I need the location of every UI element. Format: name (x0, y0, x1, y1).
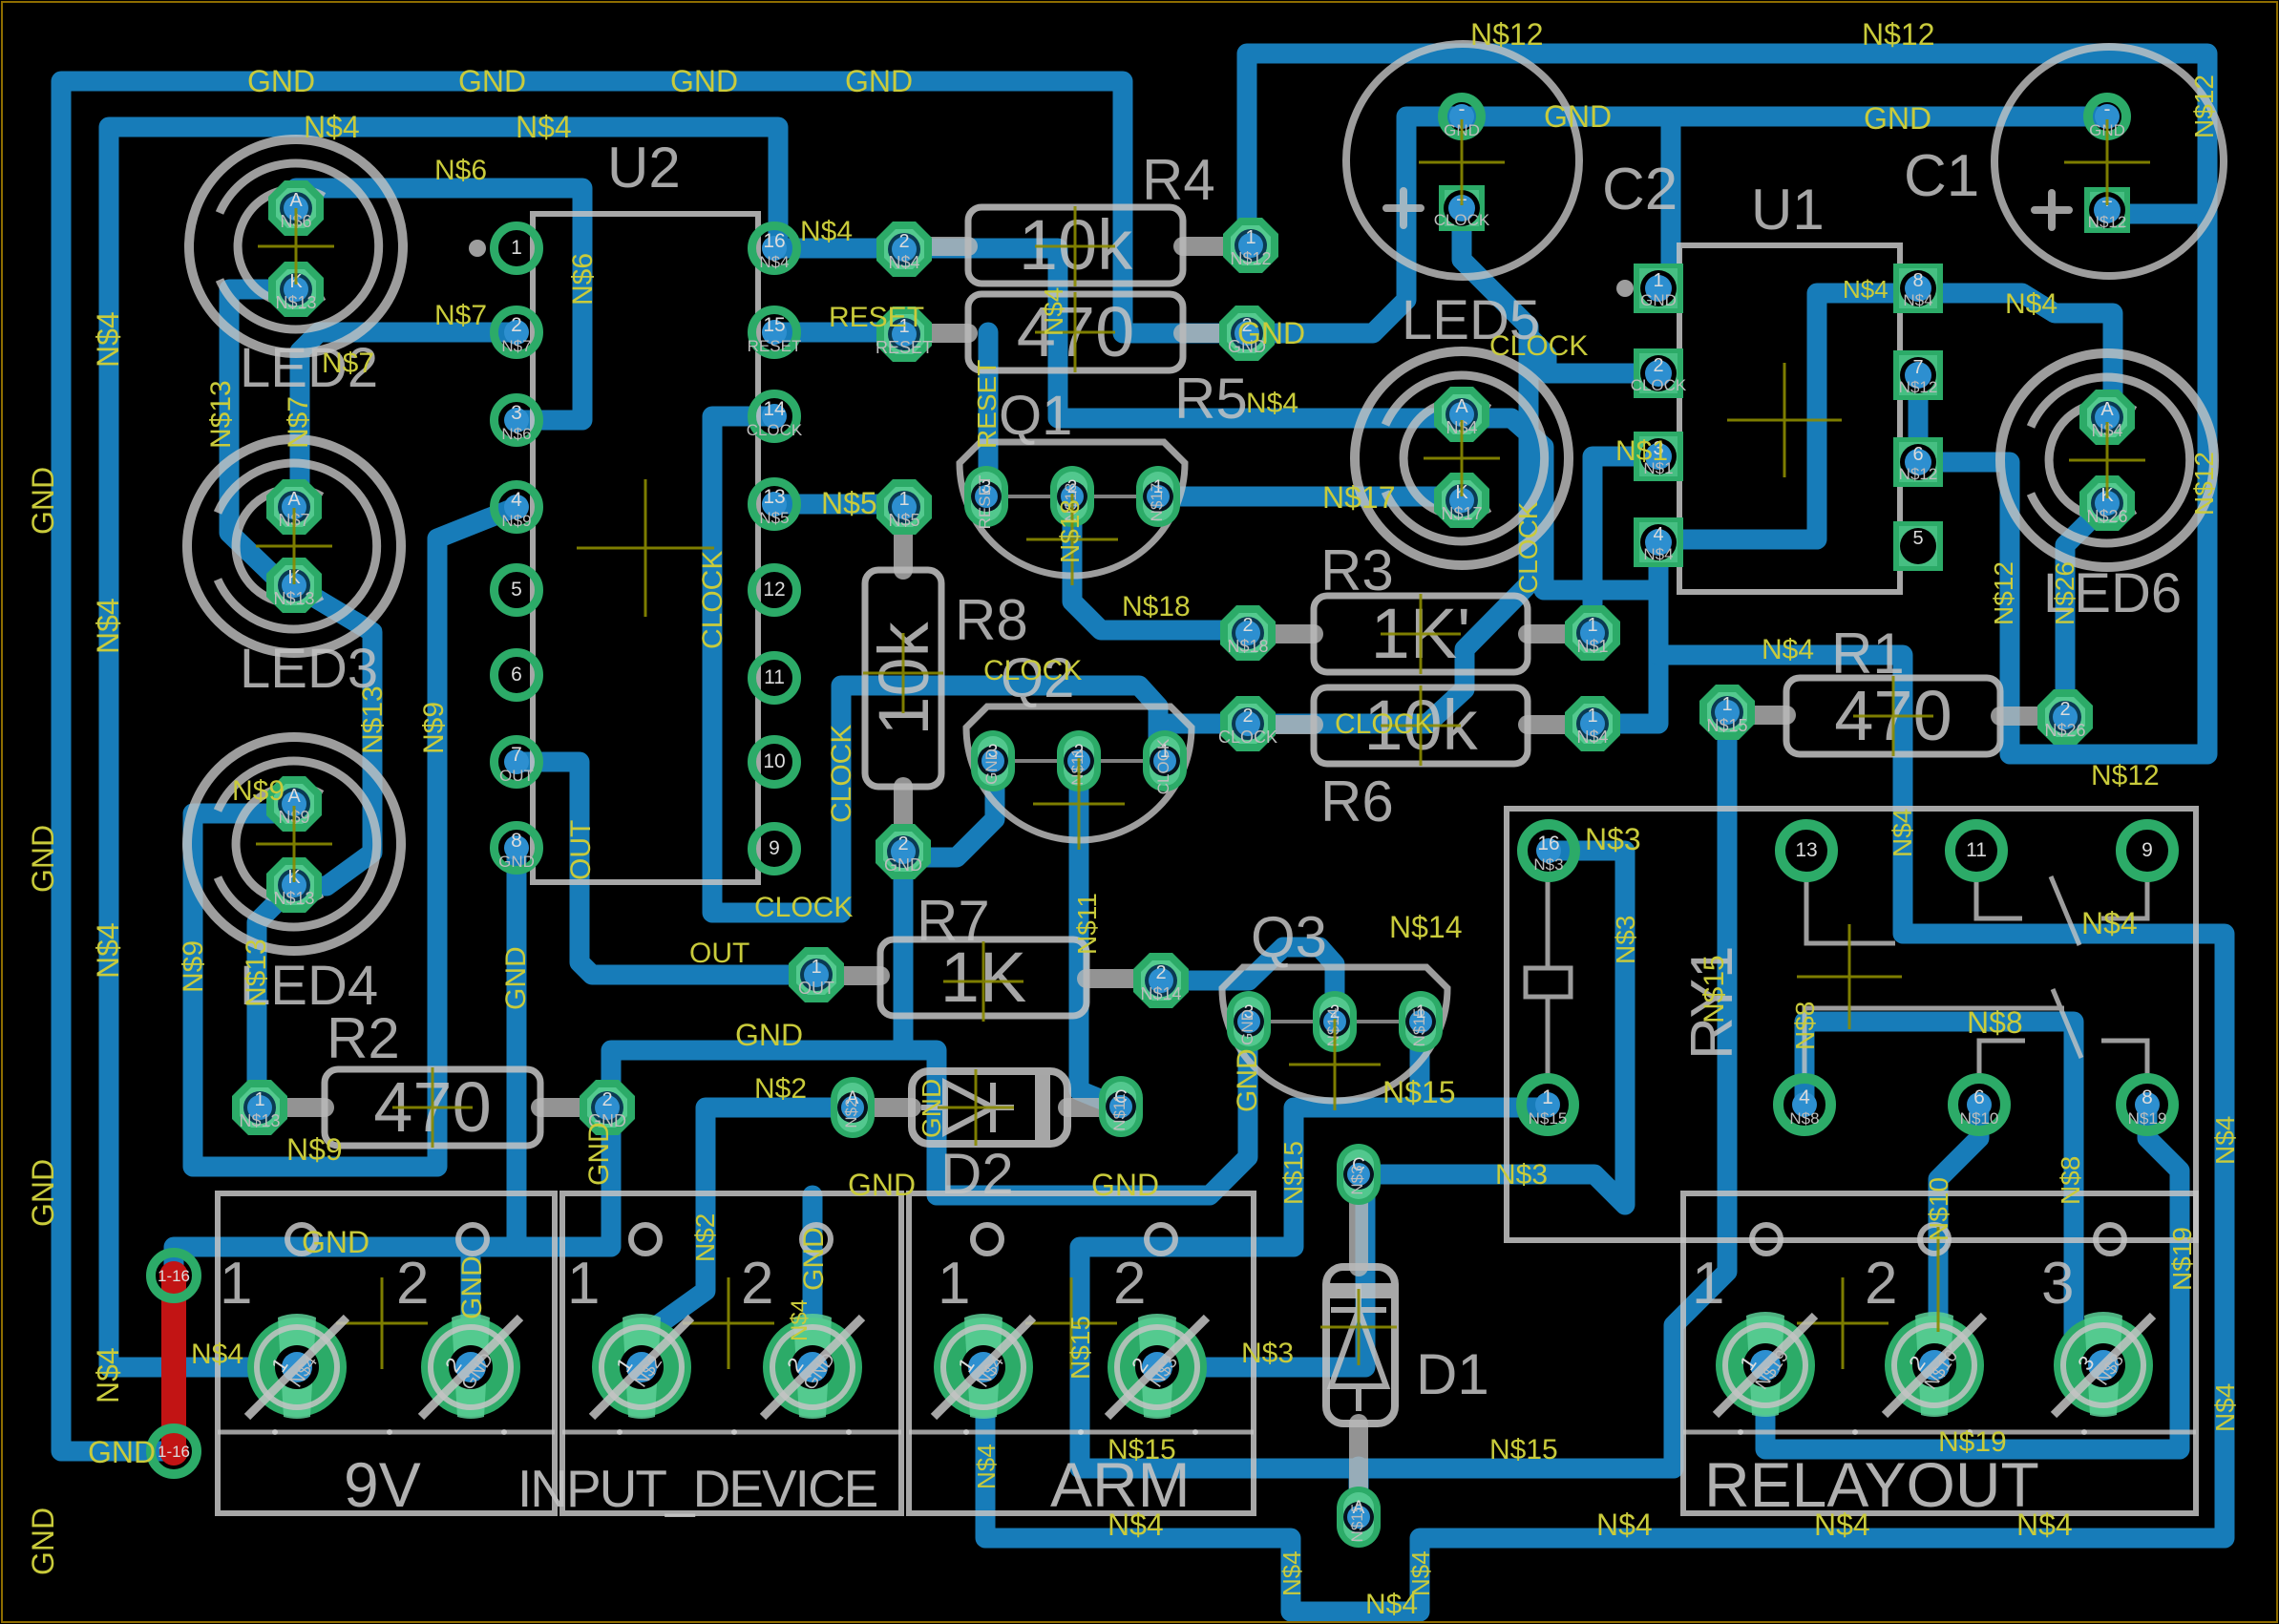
svg-text:N$4: N$4 (516, 110, 572, 144)
svg-text:N$26: N$26 (2044, 721, 2085, 740)
svg-text:RESET: RESET (748, 337, 802, 355)
U2 pin 12 (752, 568, 797, 613)
wire CLOCK C2+ to R6.2 and U1.2 (1248, 208, 1660, 724)
RELAYOUT pad 1 (1716, 1316, 1815, 1415)
R7 pad 1 (789, 947, 844, 1002)
svg-text:3: 3 (511, 402, 522, 424)
svg-text:N$12: N$12 (2088, 213, 2127, 231)
R2 leads (260, 1098, 325, 1117)
U2 pin 2 (495, 310, 539, 355)
svg-text:N$6: N$6 (434, 155, 487, 186)
INPUT_DEVICE pad 1 (592, 1318, 691, 1417)
U1 pin 6 (1893, 437, 1943, 487)
connector INPUT_DEVICE outline (562, 1193, 901, 1513)
svg-text:4: 4 (1799, 1086, 1810, 1108)
svg-text:RESET: RESET (976, 475, 994, 530)
svg-text:2: 2 (1242, 615, 1253, 636)
svg-text:CLOCK: CLOCK (983, 655, 1082, 686)
svg-text:N$4: N$4 (1596, 1508, 1653, 1542)
svg-text:N$4: N$4 (1843, 275, 1889, 304)
R5 pad 2 (1219, 306, 1275, 361)
svg-text:GND: GND (302, 1225, 369, 1259)
svg-text:13: 13 (1795, 839, 1817, 861)
transistor Q2 (966, 707, 1192, 840)
D1 symbol (1331, 1284, 1386, 1411)
wire N$3 ARM.2 to D1.1 (1157, 1184, 1365, 1367)
svg-text:GND: GND (848, 1168, 916, 1202)
resistor R4 body (968, 207, 1183, 284)
svg-text:N$4: N$4 (1888, 809, 1917, 857)
svg-text:2: 2 (2059, 699, 2070, 720)
svg-text:10: 10 (763, 750, 785, 772)
svg-text:N$12: N$12 (2189, 74, 2219, 138)
svg-text:7: 7 (1912, 357, 1923, 378)
RY1 contact silk bottom (1804, 989, 2147, 1075)
svg-text:GND: GND (1864, 101, 1931, 136)
R4 pad 1 (1223, 218, 1278, 273)
ARM pad 2 (1108, 1318, 1207, 1417)
U2 crosshair (577, 479, 714, 617)
svg-text:N$4: N$4 (2210, 1116, 2240, 1165)
svg-text:N$19: N$19 (2167, 1227, 2197, 1291)
svg-text:N$4: N$4 (1108, 1508, 1164, 1542)
svg-text:R2: R2 (327, 1006, 400, 1070)
svg-text:4: 4 (1653, 524, 1663, 545)
svg-text:N$8: N$8 (2056, 1156, 2085, 1205)
svg-text:2: 2 (1113, 1251, 1146, 1317)
svg-text:N$4: N$4 (1762, 634, 1814, 665)
svg-text:OUT: OUT (689, 938, 749, 969)
Q3 pads (1227, 991, 1271, 1052)
svg-text:CLOCK: CLOCK (1489, 330, 1588, 362)
svg-text:N$4: N$4 (888, 253, 919, 272)
C2 minus pad (1443, 97, 1481, 136)
svg-text:N$7: N$7 (501, 337, 531, 355)
R6 leads (1248, 715, 1314, 734)
svg-text:N$3: N$3 (1611, 916, 1640, 964)
wire N$14 R7.2 to Q3.2 (1161, 947, 1335, 1022)
svg-text:N$4: N$4 (191, 1339, 243, 1370)
C1 plus pad (2084, 187, 2130, 233)
svg-text:11: 11 (1966, 839, 1987, 861)
svg-text:N$14: N$14 (1389, 910, 1463, 944)
svg-text:GND: GND (26, 467, 60, 535)
svg-text:N$15: N$15 (1348, 1504, 1366, 1543)
R5 leads (904, 324, 968, 343)
U1 pin 1 (1634, 264, 1683, 313)
Q3 crosshair (1289, 1019, 1381, 1110)
connector 9V outline (218, 1193, 555, 1513)
svg-text:OUT: OUT (499, 767, 534, 785)
svg-text:1: 1 (1542, 1086, 1553, 1108)
wire N$13 LED2.K-LED3.K-LED4.K-R2.1 (229, 289, 372, 1108)
LED4 anode pad (266, 776, 322, 832)
svg-text:GND: GND (735, 1018, 803, 1052)
Q2 crosshair (1033, 758, 1125, 850)
svg-text:1: 1 (811, 957, 821, 978)
svg-text:N$8: N$8 (1790, 1002, 1820, 1050)
svg-text:N$13: N$13 (275, 293, 316, 312)
D2 pad A (831, 1077, 875, 1138)
svg-text:GND: GND (1238, 1009, 1256, 1045)
wire N$7 U2.2 to LED3.A (294, 332, 517, 507)
svg-text:1: 1 (1653, 270, 1663, 291)
U2 pin 6 (495, 653, 539, 698)
svg-text:N$8: N$8 (1967, 1005, 2023, 1040)
svg-text:GND: GND (456, 1255, 488, 1319)
svg-text:A: A (287, 489, 301, 510)
svg-text:CLOCK: CLOCK (1513, 501, 1543, 594)
svg-text:N$13: N$13 (241, 939, 272, 1007)
svg-text:N$4: N$4 (759, 253, 789, 271)
svg-text:GND: GND (1544, 99, 1612, 134)
svg-text:N$12: N$12 (1899, 378, 1938, 396)
svg-text:13: 13 (763, 486, 785, 508)
wire N$15 D1.2 stub (1349, 1466, 1369, 1517)
R5 pad 1 (876, 306, 932, 362)
svg-text:N$3: N$3 (1241, 1338, 1294, 1369)
svg-text:8: 8 (1912, 270, 1923, 291)
svg-text:CLOCK: CLOCK (1631, 376, 1687, 394)
svg-text:N$15: N$15 (1489, 1434, 1558, 1466)
wire N$26 LED6.K to R1.2 (2065, 503, 2107, 717)
wire OUT U2.7 to R7.1 (517, 762, 816, 975)
svg-text:N$12: N$12 (2189, 452, 2219, 516)
D1 pad 1 (cathode) (1337, 1144, 1381, 1205)
svg-text:N$4: N$4 (972, 1444, 1001, 1489)
LED3 crosshair (256, 508, 332, 584)
LED2 cathode pad (268, 262, 324, 317)
svg-text:2: 2 (1242, 706, 1253, 727)
svg-text:N$12: N$12 (1989, 561, 2018, 625)
LED6 cathode pad (2079, 475, 2135, 531)
svg-text:N$4: N$4 (91, 598, 125, 654)
U1 pin 4 (1634, 517, 1683, 567)
svg-text:GND: GND (500, 946, 532, 1010)
LED3 cathode pad (266, 558, 322, 613)
svg-text:2: 2 (897, 833, 908, 854)
svg-text:R4: R4 (1142, 148, 1215, 212)
RY1 coil symbol (1526, 878, 1571, 1077)
svg-text:N$26: N$26 (2050, 561, 2079, 625)
resistor R2 body (325, 1069, 540, 1146)
LED6 crosshair (2069, 422, 2145, 498)
svg-text:OUT: OUT (565, 820, 597, 880)
R3 pad 1 (1565, 605, 1620, 661)
R8 leads (894, 527, 913, 570)
svg-text:Q1: Q1 (999, 385, 1072, 447)
svg-text:N$26: N$26 (2086, 507, 2127, 526)
svg-text:A: A (1455, 396, 1468, 417)
svg-text:N$15: N$15 (1410, 1008, 1428, 1047)
svg-text:GND: GND (498, 853, 535, 871)
svg-text:N$12: N$12 (1230, 249, 1271, 268)
wire GND U1 pin1 riser (1660, 122, 1671, 286)
svg-text:2: 2 (1653, 355, 1663, 376)
svg-text:GND: GND (917, 1079, 946, 1138)
svg-text:N$2: N$2 (690, 1213, 720, 1262)
resistor R1 body (1786, 678, 2000, 754)
svg-text:CLOCK: CLOCK (1154, 738, 1172, 794)
wire N$9 U2.4 to LED4.A (193, 507, 517, 1167)
svg-text:N$15: N$15 (1108, 1434, 1176, 1466)
RY1 pin 1 (1522, 1079, 1574, 1131)
C2 crosshair (1419, 119, 1505, 205)
svg-text:1: 1 (511, 237, 522, 259)
svg-text:8: 8 (2142, 1086, 2153, 1108)
svg-text:A: A (289, 190, 303, 211)
svg-text:GND: GND (26, 825, 60, 893)
LED LED3 (187, 439, 401, 653)
svg-text:C2: C2 (1602, 157, 1678, 222)
connector RELAYOUT outline (1683, 1193, 2196, 1513)
svg-text:6: 6 (1912, 444, 1923, 465)
svg-text:1-16: 1-16 (158, 1267, 190, 1285)
D2 leads (853, 1098, 912, 1117)
svg-text:N$4: N$4 (1643, 545, 1673, 563)
svg-text:N$17: N$17 (1441, 504, 1482, 523)
svg-text:N$12: N$12 (1470, 17, 1544, 52)
R7 pad 2 (1133, 953, 1189, 1008)
wire GND INPUT_DEVICE pin2 riser (803, 1195, 823, 1367)
svg-text:2: 2 (898, 231, 909, 252)
svg-text:N$13: N$13 (357, 685, 389, 754)
svg-text:CLOCK: CLOCK (754, 892, 853, 923)
R8 pad 1 (876, 479, 932, 535)
svg-text:N$13: N$13 (273, 889, 314, 908)
svg-text:N$17: N$17 (1322, 480, 1396, 515)
wire RESET U2.15 to R5.1 and Q1.3 (774, 332, 988, 496)
svg-text:2: 2 (396, 1251, 429, 1317)
U1 pin 3 (1634, 432, 1683, 481)
svg-text:N$4: N$4 (304, 110, 360, 144)
C2 plus pad (1439, 185, 1485, 231)
diode D1 body (vertical) (1326, 1267, 1395, 1424)
wire N$2 INPUT_DEVICE.1 to D2.A (642, 1107, 853, 1367)
U2 pin 4 (495, 485, 539, 530)
RELAYOUT pad 2 (1885, 1316, 1984, 1415)
svg-text:4: 4 (511, 489, 522, 511)
svg-text:GND: GND (583, 1122, 615, 1186)
R1 leads (1727, 706, 1786, 725)
svg-text:GND: GND (798, 1227, 830, 1291)
svg-text:N$9: N$9 (418, 702, 450, 754)
wire N$3 RY1.16 to D1.1 (1370, 851, 1625, 1205)
U2 pin 16 (752, 226, 797, 271)
capacitor C2 outline (1346, 44, 1579, 277)
svg-text:CLOCK: CLOCK (826, 725, 857, 823)
wire N$12 top bus / C1+ / U1.6-7 (1247, 53, 2207, 754)
wire N$12 R4.1 riser (1247, 236, 1251, 256)
wire N$4 R5 to LED5.A branch (1452, 414, 1472, 418)
svg-text:1: 1 (1692, 1251, 1724, 1317)
svg-text:16: 16 (1537, 833, 1559, 854)
svg-text:RESET: RESET (972, 360, 1002, 449)
Q1 crosshair (1026, 494, 1118, 585)
svg-text:N$4: N$4 (2016, 1508, 2073, 1542)
svg-text:R3: R3 (1320, 538, 1394, 602)
svg-text:1: 1 (220, 1251, 252, 1317)
wire N$15 Q3.1 stub (1410, 1018, 1430, 1107)
svg-text:N$4: N$4 (1277, 1550, 1306, 1596)
svg-text:N$5: N$5 (888, 511, 919, 530)
U1 pin1 orientation dot (1616, 280, 1634, 297)
R7 leads (816, 966, 880, 985)
svg-text:N$4: N$4 (1246, 388, 1298, 419)
svg-text:1: 1 (898, 489, 909, 510)
svg-text:N$13: N$13 (239, 1111, 280, 1130)
svg-text:N$11: N$11 (1072, 893, 1102, 955)
RY1 pin 8 (2121, 1079, 2174, 1131)
LED3 anode pad (266, 479, 322, 535)
U2 pin 7 (495, 740, 539, 785)
wire CLOCK U2.14 to R6.2 / Q2.1 (712, 416, 1248, 913)
U1 pin 5 (1893, 521, 1943, 571)
svg-text:1: 1 (567, 1251, 600, 1317)
wire N$6 U2.3 to LED2.A (296, 188, 582, 420)
svg-text:R7: R7 (917, 889, 990, 953)
wire N$8 RY1.4 to RELAYOUT.3 (1804, 1022, 2103, 1365)
svg-text:N$5: N$5 (821, 486, 877, 520)
wire GND R8 pin2 drop (894, 852, 914, 1050)
svg-text:N$9: N$9 (178, 940, 209, 993)
U2 pin 9 (752, 827, 797, 872)
svg-text:N$3: N$3 (1533, 855, 1563, 874)
D1 crosshair (1320, 1289, 1397, 1365)
svg-text:GND: GND (458, 64, 526, 98)
svg-text:2: 2 (1155, 962, 1166, 983)
svg-text:N$13: N$13 (273, 589, 314, 608)
svg-text:GND: GND (884, 855, 922, 875)
svg-text:N$4: N$4 (787, 1299, 812, 1341)
Q2 pads (971, 730, 1015, 791)
R2 pad 1 (232, 1080, 287, 1135)
svg-text:A: A (2100, 399, 2114, 420)
LED2 crosshair (258, 208, 334, 285)
wire N$18 Q1.2 to R3.2 (1072, 496, 1248, 630)
R8 pad 2 (876, 824, 931, 879)
D1 leads (1349, 1174, 1368, 1267)
svg-text:7: 7 (511, 744, 522, 766)
svg-text:N$6: N$6 (567, 253, 599, 306)
U1 pin 2 (1634, 348, 1683, 398)
LED6 anode pad (2079, 390, 2135, 445)
svg-text:3: 3 (2041, 1251, 2074, 1317)
svg-text:C1: C1 (1904, 143, 1979, 209)
Q1 pads (964, 466, 1008, 527)
svg-text:12: 12 (763, 579, 785, 601)
R2 crosshair (392, 1067, 473, 1148)
jumper wire GND 1-16 (red) (161, 1276, 186, 1451)
resistor R7 body (880, 939, 1087, 1016)
R3 leads (1248, 624, 1314, 643)
LED2 anode pad (268, 180, 324, 236)
svg-text:1: 1 (254, 1089, 264, 1110)
jumper pad 1-16 top (151, 1253, 197, 1298)
R1 pad 2 (2037, 689, 2093, 745)
relay RY1 outline (1507, 809, 2196, 1240)
svg-text:N$7: N$7 (322, 348, 374, 379)
D2 symbol (921, 1083, 1014, 1132)
svg-text:GND: GND (670, 64, 738, 98)
svg-text:2: 2 (601, 1089, 612, 1110)
svg-text:N$3: N$3 (1585, 822, 1641, 856)
RY1 pin 13 (1781, 825, 1833, 877)
svg-text:9: 9 (769, 837, 780, 859)
svg-text:R8: R8 (955, 588, 1028, 652)
LED5 cathode pad (1434, 473, 1489, 528)
svg-text:N$4: N$4 (1039, 287, 1068, 336)
svg-text:R5: R5 (1174, 367, 1248, 431)
svg-text:N$2: N$2 (842, 1098, 860, 1128)
svg-text:N$15: N$15 (1706, 716, 1747, 735)
svg-text:N$18: N$18 (1055, 499, 1085, 563)
svg-text:1-16: 1-16 (158, 1443, 190, 1461)
svg-text:N$15: N$15 (1382, 1075, 1456, 1109)
svg-text:1: 1 (1721, 694, 1732, 715)
svg-text:N$12: N$12 (1899, 465, 1938, 483)
svg-text:N$12: N$12 (1862, 17, 1935, 52)
wire N$10 RY1.6 to RELAYOUT.2 (1938, 1105, 1979, 1365)
LED LED5 (1355, 351, 1569, 565)
transistor Q1 (960, 442, 1185, 576)
wire N$17 Q1.1 to LED5.K (1156, 496, 1462, 500)
svg-text:16: 16 (763, 230, 785, 252)
ARM pad 1 (934, 1318, 1033, 1417)
D1 pad 2 (anode) (1337, 1487, 1381, 1548)
RELAYOUT pad 3 (2054, 1316, 2153, 1415)
svg-text:8: 8 (511, 830, 522, 852)
R6 pad 2 (1220, 696, 1276, 751)
svg-text:11: 11 (764, 666, 785, 688)
svg-text:N$10: N$10 (1960, 1109, 1999, 1128)
svg-text:GND: GND (247, 64, 315, 98)
LED5 crosshair (1424, 420, 1500, 496)
D2 crosshair (938, 1069, 1014, 1146)
wire GND left/top bus (61, 81, 1247, 1451)
wire N$11 Q2.2 to D2.K (1079, 761, 1121, 1107)
svg-text:1: 1 (938, 1251, 970, 1317)
LED LED2 (189, 139, 403, 353)
svg-text:N$4: N$4 (91, 1347, 125, 1403)
wire N$4 U1.4 to R6.1 (1593, 542, 1658, 724)
D2 pad K (1099, 1076, 1143, 1137)
LED LED4 (187, 737, 401, 951)
svg-text:N$1: N$1 (1615, 435, 1668, 467)
9V pad 2 (421, 1318, 520, 1417)
C1 crosshair (2064, 119, 2150, 205)
LED4 crosshair (256, 806, 332, 882)
svg-text:1: 1 (1587, 706, 1597, 727)
svg-text:N$4: N$4 (1365, 1589, 1418, 1620)
svg-text:N$1: N$1 (1576, 637, 1608, 656)
R4 crosshair (1035, 206, 1115, 286)
wire N$5 U2.13 to R8.1 (774, 495, 904, 515)
U2 pin1 orientation dot (469, 240, 486, 257)
U2 pin 5 (495, 568, 539, 613)
svg-text:CLOCK: CLOCK (747, 421, 803, 439)
svg-text:GND: GND (1640, 291, 1677, 309)
R2 pad 2 (580, 1080, 635, 1135)
svg-text:2: 2 (741, 1251, 773, 1317)
svg-text:N$15: N$15 (1278, 1141, 1308, 1205)
svg-text:U2: U2 (607, 136, 681, 200)
wire GND 9V pin2 riser (461, 1247, 481, 1367)
RELAYOUT crosshair (1937, 1227, 1940, 1332)
svg-text:-: - (2104, 98, 2111, 120)
svg-text:CLOCK: CLOCK (1335, 708, 1433, 740)
svg-text:A: A (287, 786, 301, 807)
